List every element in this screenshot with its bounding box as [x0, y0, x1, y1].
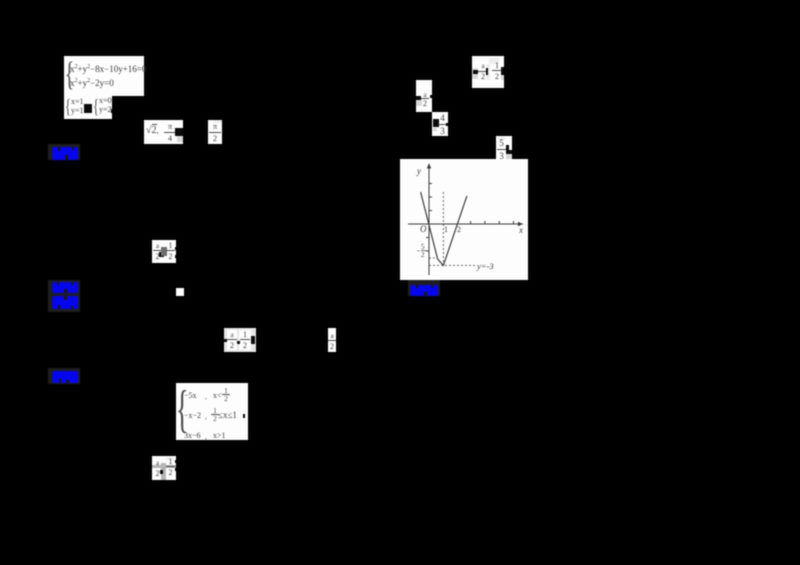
- equation image: a/2 | 1/2 (bottom): [152, 456, 176, 480]
- svg-text:x: x: [518, 225, 523, 235]
- svg-text:y: y: [416, 166, 421, 176]
- equation image: circle system: [64, 56, 144, 96]
- equation image: a/2 = 1/2 (mid): [152, 240, 176, 263]
- equation image: a/2 (small): [328, 328, 336, 352]
- equation image: a/2 - 1/2 (gray): [224, 328, 256, 352]
- equation image: a/2 (right col): [416, 80, 432, 112]
- equation image: piecewise function: [176, 383, 248, 440]
- equation image: a/2 , 1/2 (top right): [472, 56, 504, 88]
- dashed horizontal y=-5/2: [429, 257, 437, 259]
- svg-text:2: 2: [457, 225, 461, 234]
- curve left branch: [421, 192, 467, 265]
- svg-text:1: 1: [444, 225, 448, 234]
- blue link 1: [48, 144, 80, 160]
- svg-text:-: -: [417, 246, 420, 255]
- dashed vertical x=1: [442, 192, 444, 265]
- svg-text:2: 2: [421, 251, 425, 259]
- graph image: [400, 159, 528, 280]
- blue link 4 (below graph): [408, 280, 440, 296]
- blue link 3: [48, 368, 80, 384]
- equation image: sqrt2, pi/4: [144, 120, 183, 144]
- equation image: 4/3: [432, 112, 448, 136]
- white square marker: [176, 288, 184, 296]
- y-axis: [428, 165, 430, 275]
- equation image: two solution systems: [64, 96, 112, 119]
- x-axis: [408, 223, 523, 225]
- svg-text:O: O: [420, 224, 427, 234]
- svg-text:y=-3: y=-3: [476, 261, 494, 271]
- dashed horizontal y=-3: [429, 264, 476, 266]
- x ticks: [470, 221, 472, 224]
- blue link 2 (two lines): [48, 280, 80, 312]
- svg-text:5: 5: [421, 243, 425, 251]
- equation image: pi/2: [208, 120, 222, 144]
- equation image: 5/3 with bar: [496, 136, 512, 160]
- y ticks: [429, 210, 432, 212]
